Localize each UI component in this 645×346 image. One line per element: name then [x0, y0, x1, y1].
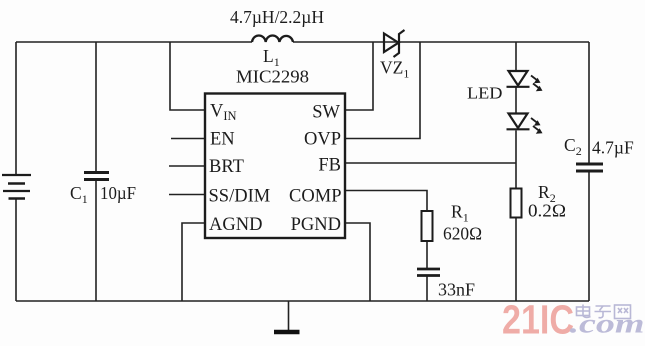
LED D1 light arrows	[531, 76, 543, 92]
svg-text:SS/DIM: SS/DIM	[209, 187, 271, 207]
svg-text:C1: C1	[70, 183, 88, 206]
wire VIN branch	[170, 42, 205, 110]
op-amp U1 MIC2298 box	[205, 94, 345, 239]
watermark zi glyph	[595, 306, 612, 318]
capacitor C2	[576, 164, 603, 171]
wire C1 branch	[95, 42, 97, 301]
wire left vertical (battery branch)	[15, 42, 17, 301]
wire bottom rail	[16, 300, 589, 302]
watermark wang glyph	[615, 305, 631, 319]
wire PGND to ground rail	[345, 223, 370, 301]
wire 33nF to bottom rail	[426, 276, 428, 302]
wire COMP to R1	[345, 191, 427, 212]
svg-text:MIC2298: MIC2298	[236, 67, 309, 87]
wire FB to LED/R2 node	[345, 162, 516, 164]
wire BRT stub	[169, 165, 205, 167]
wire C2 branch	[588, 42, 590, 301]
svg-text:PGND: PGND	[291, 215, 341, 235]
svg-text:SW: SW	[312, 103, 340, 123]
svg-text:FB: FB	[318, 156, 341, 176]
svg-text:4.7µH/2.2µH: 4.7µH/2.2µH	[230, 7, 324, 27]
svg-text:33nF: 33nF	[438, 280, 475, 300]
battery B1	[2, 175, 31, 199]
ground	[288, 301, 290, 330]
svg-text:OVP: OVP	[304, 130, 341, 150]
svg-text:C2: C2	[564, 135, 582, 158]
svg-text:VZ1: VZ1	[380, 58, 409, 81]
LED D1	[507, 71, 530, 87]
svg-text:0.2Ω: 0.2Ω	[528, 201, 566, 221]
svg-text:.com: .com	[570, 309, 645, 339]
wire LED / R2 branch	[515, 42, 517, 301]
wire AGND to ground rail	[182, 223, 205, 301]
svg-text:LED: LED	[467, 84, 503, 103]
capacitor C1	[84, 173, 109, 180]
wire OVP to top rail	[345, 42, 420, 139]
wire EN stub	[171, 138, 205, 140]
svg-text:VIN: VIN	[210, 102, 237, 124]
zener diode VZ1	[384, 30, 405, 57]
svg-text:EN: EN	[210, 130, 235, 150]
inductor L1	[252, 35, 293, 42]
LED D2 light arrows	[531, 118, 543, 134]
wire SS/DIM stub	[169, 194, 205, 196]
svg-text:21IC: 21IC	[502, 297, 574, 343]
watermark dian glyph	[577, 305, 591, 318]
wire SW to top rail	[345, 42, 373, 110]
svg-text:AGND: AGND	[209, 215, 262, 235]
resistor R2	[511, 189, 522, 218]
wire R1 to 33nF cap	[426, 241, 428, 268]
svg-text:10µF: 10µF	[100, 183, 136, 203]
svg-text:BRT: BRT	[209, 157, 244, 177]
svg-text:4.7µF: 4.7µF	[592, 138, 634, 158]
svg-text:R1: R1	[451, 202, 469, 225]
svg-text:620Ω: 620Ω	[443, 224, 482, 244]
svg-text:COMP: COMP	[289, 187, 341, 207]
capacitor 33nF	[417, 269, 440, 276]
resistor R1	[422, 211, 433, 241]
wire top rail	[16, 41, 589, 43]
LED D2	[507, 114, 530, 130]
